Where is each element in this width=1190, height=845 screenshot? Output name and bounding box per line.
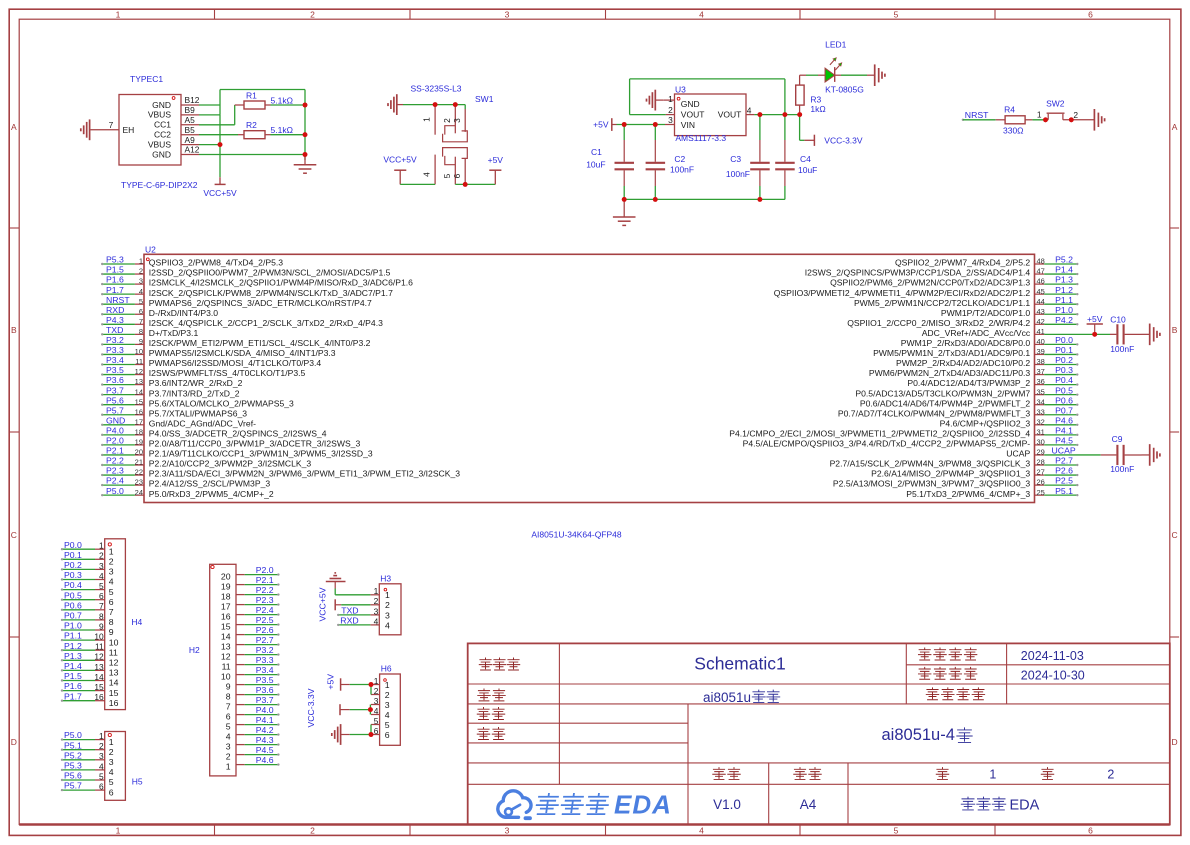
- svg-text:B: B: [11, 325, 17, 335]
- svg-text:30: 30: [1037, 438, 1045, 447]
- H4 pin 10 (P1.1): [95, 639, 105, 641]
- svg-text:GND: GND: [106, 415, 125, 425]
- U2 pin 43 (P1.0): [1035, 313, 1045, 315]
- svg-text:48: 48: [1037, 257, 1045, 266]
- svg-text:12: 12: [221, 652, 231, 662]
- svg-text:P5.0: P5.0: [106, 486, 124, 496]
- svg-text:10uF: 10uF: [586, 160, 605, 170]
- ground symbol below R1/R2: [304, 155, 306, 165]
- U2 pin 45 (P1.2): [1035, 293, 1045, 295]
- junction SW1 pin6: [463, 182, 468, 187]
- svg-text:P0.1: P0.1: [64, 550, 82, 560]
- svg-text:2024-10-30: 2024-10-30: [1021, 669, 1085, 683]
- svg-text:3: 3: [385, 610, 390, 620]
- svg-text:P4.0: P4.0: [256, 705, 274, 715]
- svg-text:H5: H5: [132, 777, 143, 787]
- net label P0.2 at U2 pin 38: [1044, 364, 1076, 366]
- title block grid lines: [906, 664, 1170, 666]
- net label P0.6 at U2 pin 34: [1044, 404, 1076, 406]
- svg-text:2: 2: [385, 600, 390, 610]
- U2 pin 30 (P4.5): [1035, 444, 1045, 446]
- junction R1 right: [303, 103, 308, 108]
- SW1 pin 3: [464, 105, 466, 109]
- IC U2 AI8051U-34K64-QFP48 body: [144, 254, 1035, 502]
- ground symbol at H6 pins 5-6: [340, 724, 342, 745]
- net label RXD at H3 pin4: [339, 624, 370, 626]
- net label P2.4 at H2 pin 16: [245, 614, 278, 616]
- svg-text:P2.1/A9/T11CLKO/CCP1_3/PWM1N_3: P2.1/A9/T11CLKO/CCP1_3/PWM1N_3/PWM5_3/I2…: [149, 449, 373, 459]
- svg-text:4: 4: [747, 106, 752, 116]
- U2 pin 21 (P2.2): [135, 464, 144, 466]
- svg-text:1: 1: [139, 257, 143, 266]
- svg-text:6: 6: [99, 782, 104, 792]
- H4 pin 2 (P0.1): [95, 558, 105, 560]
- svg-text:P1.1: P1.1: [64, 631, 82, 641]
- svg-text:P2.5: P2.5: [1055, 476, 1073, 486]
- net label P1.1 at H4 pin 10: [63, 639, 95, 641]
- svg-text:3: 3: [505, 9, 510, 19]
- U2 pin 34 (P0.6): [1035, 404, 1045, 406]
- U2 pin 41 (Vcc): [1035, 333, 1045, 335]
- svg-text:V1.0: V1.0: [713, 797, 741, 812]
- zone tick marks top: [214, 9, 216, 19]
- power flag VCC+5V below TYPEC1: [219, 177, 221, 184]
- svg-text:R2: R2: [246, 120, 257, 130]
- H4 pin 7 (P0.6): [95, 609, 105, 611]
- svg-text:1: 1: [385, 680, 390, 690]
- svg-text:P4.5: P4.5: [1055, 436, 1073, 446]
- svg-text:10: 10: [135, 347, 143, 356]
- net label TXD at H3 pin3: [339, 614, 370, 616]
- net label P5.6 at H5 pin 5: [63, 779, 95, 781]
- wire SW2 to ground: [1063, 119, 1095, 121]
- H3 pin 2: [370, 604, 379, 606]
- svg-text:P3.6/INT2/WR_2/RxD_2: P3.6/INT2/WR_2/RxD_2: [149, 378, 243, 388]
- svg-text:A: A: [11, 122, 17, 132]
- U2 pin 25 (P5.1): [1035, 494, 1045, 496]
- svg-text:29: 29: [1037, 448, 1045, 457]
- svg-text:P5.6: P5.6: [106, 395, 124, 405]
- svg-text:4: 4: [109, 577, 114, 587]
- svg-text:37: 37: [1037, 367, 1045, 376]
- wire net UCAP at U2 pin29: [1044, 454, 1101, 456]
- svg-text:C: C: [11, 530, 17, 540]
- svg-text:9: 9: [109, 627, 114, 637]
- H2 pin 13 (P2.7): [236, 644, 245, 646]
- net label P2.1 at H2 pin 19: [245, 584, 278, 586]
- power flag VCC-3.3V: [804, 139, 814, 141]
- svg-text:P2.0: P2.0: [256, 565, 274, 575]
- svg-text:17: 17: [135, 417, 143, 426]
- net label P4.5 at U2 pin 30: [1044, 444, 1076, 446]
- svg-text:P4.6/CMP+/QSPIIO2_3: P4.6/CMP+/QSPIIO2_3: [940, 418, 1031, 428]
- U2 pin 12 (P3.5): [135, 374, 144, 376]
- wire VCC+5V to SW1 pin4: [400, 183, 435, 185]
- junction H6 pin1: [369, 682, 374, 687]
- svg-text:3: 3: [226, 742, 231, 752]
- svg-text:P0.7/AD7/T4CLKO/PWM4N_2/PWM8/P: P0.7/AD7/T4CLKO/PWM4N_2/PWM8/PWMFLT_3: [838, 408, 1031, 418]
- svg-text:P4.1: P4.1: [256, 715, 274, 725]
- H4 pin 8 (P0.7): [95, 619, 105, 621]
- svg-text:VOUT: VOUT: [718, 110, 742, 120]
- title label 物料编码: [926, 688, 938, 700]
- svg-text:P3.3: P3.3: [256, 655, 274, 665]
- svg-text:EDA: EDA: [1010, 798, 1040, 814]
- svg-text:P3.2: P3.2: [256, 645, 274, 655]
- net label P0.5 at H4 pin 6: [63, 599, 95, 601]
- svg-text:AI8051U-34K64-QFP48: AI8051U-34K64-QFP48: [531, 529, 622, 539]
- net label P1.4 at U2 pin 47: [1044, 273, 1076, 275]
- svg-text:I2SSD_2/QSPIIO0/PWM7_2/PWM3N/S: I2SSD_2/QSPIIO0/PWM7_2/PWM3N/SCL_2/MOSI/…: [149, 268, 391, 278]
- svg-text:2: 2: [226, 752, 231, 762]
- H6 pin 1: [371, 684, 380, 686]
- junction C1 top: [622, 122, 627, 127]
- U2 pin 36 (P0.4): [1035, 384, 1045, 386]
- svg-text:P3.7: P3.7: [106, 385, 124, 395]
- title label 页: [936, 768, 948, 780]
- net label P2.3 at H2 pin 17: [245, 604, 278, 606]
- svg-text:D-/RxD/INT4/P3.0: D-/RxD/INT4/P3.0: [149, 308, 218, 318]
- net label P2.2 at H2 pin 18: [245, 594, 278, 596]
- svg-text:6: 6: [385, 730, 390, 740]
- svg-text:P0.4: P0.4: [64, 580, 82, 590]
- svg-text:3: 3: [99, 561, 104, 571]
- net label P0.0 at U2 pin 40: [1044, 343, 1076, 345]
- svg-text:14: 14: [94, 672, 104, 682]
- logo cloud icon 嘉立创EDA: [498, 791, 531, 818]
- svg-text:9: 9: [99, 621, 104, 631]
- svg-text:P3.5: P3.5: [106, 365, 124, 375]
- svg-text:6: 6: [139, 307, 143, 316]
- title value 嘉立创EDA: [961, 797, 974, 810]
- svg-text:14: 14: [221, 632, 231, 642]
- svg-text:VIN: VIN: [681, 120, 695, 130]
- net label P3.6 at H2 pin 8: [245, 694, 278, 696]
- svg-text:3: 3: [374, 696, 379, 706]
- svg-text:I2SCK_4/QSPICLK_2/CCP1_2/SCLK_: I2SCK_4/QSPICLK_2/CCP1_2/SCLK_3/TxD2_2/R…: [149, 318, 383, 328]
- svg-text:C1: C1: [591, 147, 602, 157]
- power flag VCC-3.3V at H6 pins 3-4: [339, 704, 341, 715]
- svg-text:P0.6/ADC14/AD6/T4/PWM4P_2/PWMF: P0.6/ADC14/AD6/T4/PWM4P_2/PWMFLT_2: [860, 398, 1031, 408]
- svg-text:330Ω: 330Ω: [1003, 125, 1024, 135]
- svg-text:PWM1P/T2/ADC0/P1.0: PWM1P/T2/ADC0/P1.0: [941, 308, 1031, 318]
- svg-text:P1.4: P1.4: [64, 661, 82, 671]
- net label P3.2 at H2 pin 12: [245, 654, 278, 656]
- svg-text:GND: GND: [152, 149, 171, 159]
- net label P2.0 at U2 pin 19: [103, 444, 135, 446]
- svg-text:3: 3: [139, 277, 143, 286]
- svg-text:VBUS: VBUS: [148, 139, 171, 149]
- svg-text:VOUT: VOUT: [681, 110, 705, 120]
- H2 pin 9 (P3.5): [236, 684, 245, 686]
- net label P4.0 at H2 pin 6: [245, 714, 278, 716]
- net label P2.5 at U2 pin 26: [1044, 484, 1076, 486]
- regulator U3 body: [675, 94, 747, 136]
- svg-text:R3: R3: [810, 95, 821, 105]
- svg-text:C3: C3: [730, 154, 741, 164]
- svg-text:1: 1: [421, 117, 431, 122]
- H2 pin 17 (P2.3): [236, 604, 245, 606]
- junction H6 pin6: [369, 732, 374, 737]
- H4 pin 9 (P1.0): [95, 629, 105, 631]
- svg-text:P2.5/A13/MOSI_2/PWM3N_3/PWM7_3: P2.5/A13/MOSI_2/PWM3N_3/PWM7_3/QSPIIO0_3: [833, 479, 1030, 489]
- H5 pin 1 (P5.0): [95, 739, 105, 741]
- svg-text:2: 2: [99, 551, 104, 561]
- svg-text:100nF: 100nF: [670, 164, 694, 174]
- svg-text:P3.7: P3.7: [256, 695, 274, 705]
- ground symbol left of SW1: [396, 94, 398, 115]
- svg-text:5: 5: [385, 720, 390, 730]
- net label P1.6 at U2 pin 3: [103, 283, 135, 285]
- svg-text:EDA: EDA: [614, 790, 672, 820]
- svg-text:C4: C4: [800, 154, 811, 164]
- svg-text:2: 2: [1073, 110, 1078, 120]
- svg-text:B: B: [1172, 325, 1178, 335]
- svg-text:KT-0805G: KT-0805G: [825, 84, 864, 94]
- ground symbol below C1: [623, 199, 625, 217]
- svg-text:2: 2: [310, 825, 315, 835]
- ground symbol at TYPEC1 EH: [89, 119, 91, 140]
- svg-text:1: 1: [374, 586, 379, 596]
- svg-text:UCAP: UCAP: [1006, 449, 1030, 459]
- net label P4.5 at H2 pin 2: [245, 754, 278, 756]
- svg-text:8: 8: [109, 617, 114, 627]
- svg-text:P5.6/XTALO/MCLKO_2/PWMAPS5_3: P5.6/XTALO/MCLKO_2/PWMAPS5_3: [149, 398, 294, 408]
- svg-text:8: 8: [99, 611, 104, 621]
- svg-text:15: 15: [221, 622, 231, 632]
- junction SW2 pin1: [1043, 117, 1048, 122]
- svg-text:23: 23: [135, 478, 143, 487]
- svg-text:PWM5/PWM1N_2/TxD3/AD1/ADC9/P0.: PWM5/PWM1N_2/TxD3/AD1/ADC9/P0.1: [873, 348, 1030, 358]
- svg-text:3: 3: [505, 825, 510, 835]
- net label P1.4 at H4 pin 13: [63, 669, 95, 671]
- net label P3.7 at H2 pin 7: [245, 704, 278, 706]
- U2 pin 11 (P3.4): [135, 364, 144, 366]
- svg-text:3: 3: [385, 700, 390, 710]
- svg-text:6: 6: [109, 787, 114, 797]
- svg-text:12: 12: [135, 367, 143, 376]
- svg-text:5: 5: [99, 771, 104, 781]
- svg-text:12: 12: [94, 652, 104, 662]
- H4 pin 11 (P1.2): [95, 649, 105, 651]
- TYPEC1 pin A5 (CC1): [181, 124, 199, 126]
- title label 共: [1041, 768, 1053, 780]
- svg-text:P0.4: P0.4: [1055, 375, 1073, 385]
- svg-text:1: 1: [374, 676, 379, 686]
- net label P4.0 at U2 pin 18: [103, 434, 135, 436]
- resistor R3: [800, 74, 806, 76]
- svg-text:B9: B9: [185, 105, 196, 115]
- svg-text:P2.7: P2.7: [1055, 456, 1073, 466]
- net label P5.6 at U2 pin 15: [103, 404, 135, 406]
- svg-text:2: 2: [310, 9, 315, 19]
- zone tick marks left: [9, 227, 19, 229]
- svg-text:P4.0: P4.0: [106, 425, 124, 435]
- wire LED1 cathode to ground: [835, 74, 841, 76]
- U2 pin 42 (P4.2): [1035, 323, 1045, 325]
- svg-text:VCC+5V: VCC+5V: [383, 154, 417, 164]
- svg-text:P1.7: P1.7: [64, 691, 82, 701]
- TYPEC1 pin A12 (GND): [181, 154, 199, 156]
- svg-text:R1: R1: [246, 90, 257, 100]
- net label P0.7 at U2 pin 33: [1044, 414, 1076, 416]
- svg-text:P2.6/A14/MISO_2/PWM4P_3/QSPIIO: P2.6/A14/MISO_2/PWM4P_3/QSPIIO1_3: [871, 469, 1030, 479]
- net label P0.3 at H4 pin 4: [63, 579, 95, 581]
- net label P2.4 at U2 pin 23: [103, 484, 135, 486]
- net label P1.1 at U2 pin 44: [1044, 303, 1076, 305]
- svg-text:16: 16: [221, 612, 231, 622]
- net label P0.6 at H4 pin 7: [63, 609, 95, 611]
- U2 pin 35 (P0.5): [1035, 394, 1045, 396]
- svg-text:P2.3: P2.3: [256, 595, 274, 605]
- wire net VCC-3.3V: R3 down to flag: [799, 115, 801, 141]
- svg-text:16: 16: [109, 698, 119, 708]
- svg-text:4: 4: [699, 9, 704, 19]
- U2 pin 32 (P4.6): [1035, 424, 1045, 426]
- svg-text:5.1kΩ: 5.1kΩ: [271, 95, 293, 105]
- junction C4 top / loop: [783, 112, 788, 117]
- U2 pin 22 (P2.3): [135, 474, 144, 476]
- connector H4 body: [105, 539, 126, 710]
- H3 pin 3: [370, 614, 379, 616]
- net label P4.3 at U2 pin 7: [103, 323, 135, 325]
- svg-text:I2SCK/PWM_ETI2/PWM_ETI1/SCL_4/: I2SCK/PWM_ETI2/PWM_ETI1/SCL_4/SCLK_4/INT…: [149, 338, 371, 348]
- net label P0.1 at H4 pin 2: [63, 558, 95, 560]
- H3 pin-1 marker: [384, 588, 387, 591]
- H2 pin 10 (P3.4): [236, 674, 245, 676]
- svg-text:2: 2: [109, 557, 114, 567]
- wire net GND: A12 row: [199, 154, 305, 156]
- net label P2.7 at U2 pin 28: [1044, 464, 1076, 466]
- svg-text:CC1: CC1: [154, 120, 171, 130]
- net label P1.6 at H4 pin 15: [63, 690, 95, 692]
- svg-text:10uF: 10uF: [798, 165, 817, 175]
- SW1 pin 1: [434, 105, 436, 135]
- svg-text:33: 33: [1037, 407, 1045, 416]
- svg-text:7: 7: [226, 702, 231, 712]
- svg-text:2: 2: [139, 267, 143, 276]
- svg-text:TYPEC1: TYPEC1: [130, 74, 163, 84]
- U2 pin 48 (P5.2): [1035, 263, 1045, 265]
- H2 pin-1 marker: [211, 565, 214, 568]
- svg-text:P2.7: P2.7: [256, 635, 274, 645]
- LED1 diode symbol: [825, 68, 835, 82]
- H3 pin 4: [370, 624, 379, 626]
- svg-text:U3: U3: [675, 85, 686, 95]
- title label 审阅: [477, 728, 489, 740]
- svg-text:4: 4: [374, 706, 379, 716]
- svg-text:PWM6/PWM2N_2/TxD4/AD3/ADC11/P0: PWM6/PWM2N_2/TxD4/AD3/ADC11/P0.3: [869, 368, 1030, 378]
- svg-text:A5: A5: [185, 115, 196, 125]
- wire SW1 pin5/pin6 to +5V: [455, 183, 495, 185]
- svg-text:2: 2: [442, 118, 452, 123]
- svg-text:P5.0: P5.0: [64, 730, 82, 740]
- svg-text:P1.6: P1.6: [106, 275, 124, 285]
- U3 pin 4 VOUT right: [746, 114, 754, 116]
- svg-text:PWM2P_2/RxD4/AD2/ADC10/P0.2: PWM2P_2/RxD4/AD2/ADC10/P0.2: [896, 358, 1030, 368]
- svg-text:22: 22: [135, 468, 143, 477]
- svg-text:P2.3/A11/SDA/ECI_3/PWM2N_3/PWM: P2.3/A11/SDA/ECI_3/PWM2N_3/PWM6_3/PWM_ET…: [149, 469, 460, 479]
- svg-text:3: 3: [109, 757, 114, 767]
- net label P2.6 at U2 pin 27: [1044, 474, 1076, 476]
- U2 pin 18 (P4.0): [135, 434, 144, 436]
- svg-text:P1.6: P1.6: [64, 681, 82, 691]
- TYPEC1 pin B12 (GND): [181, 104, 199, 106]
- net label P5.1 at U2 pin 25: [1044, 494, 1076, 496]
- svg-text:27: 27: [1037, 468, 1045, 477]
- U2 pin-1 marker: [146, 258, 149, 261]
- wire net +5V at H6: [350, 684, 371, 686]
- svg-text:GND: GND: [152, 100, 171, 110]
- junction C2 top: [653, 122, 658, 127]
- svg-text:R4: R4: [1004, 104, 1015, 114]
- svg-text:43: 43: [1037, 307, 1045, 316]
- U2 pin 3 (P1.6): [135, 283, 144, 285]
- svg-text:P0.7: P0.7: [1055, 405, 1073, 415]
- title label 图页: [478, 689, 490, 701]
- svg-text:2: 2: [374, 686, 379, 696]
- title label 更新日期: [918, 648, 930, 660]
- ground symbol right of C10: [1149, 324, 1151, 346]
- svg-text:A12: A12: [185, 145, 200, 155]
- svg-text:+5V: +5V: [593, 119, 609, 129]
- svg-text:4: 4: [139, 287, 143, 296]
- U3 pin 1 GND: [664, 99, 675, 101]
- H2 pin 6 (P4.0): [236, 714, 245, 716]
- net label TXD at U2 pin 8: [103, 333, 135, 335]
- svg-text:C: C: [1172, 530, 1178, 540]
- SW1 pin 6: [464, 158, 466, 184]
- title block outer frame: [468, 643, 1170, 824]
- svg-text:4: 4: [385, 710, 390, 720]
- U2 pin 20 (P2.1): [135, 454, 144, 456]
- svg-text:47: 47: [1037, 267, 1045, 276]
- junction C1 bottom: [622, 197, 627, 202]
- junction H6 pins3-4: [368, 707, 373, 712]
- svg-text:P2.2/A10/CCP2_3/PWM2P_3/I2SMCL: P2.2/A10/CCP2_3/PWM2P_3/I2SMCLK_3: [149, 459, 312, 469]
- zone tick marks right: [1170, 227, 1179, 229]
- ground symbol right of SW2: [1093, 109, 1095, 131]
- svg-text:P1.7: P1.7: [106, 285, 124, 295]
- svg-text:RXD: RXD: [340, 616, 358, 626]
- net label P1.5 at U2 pin 2: [103, 273, 135, 275]
- svg-text:4: 4: [385, 620, 390, 630]
- svg-text:PWMAPS5/I2SMCLK/SDA_4/MISO_4/I: PWMAPS5/I2SMCLK/SDA_4/MISO_4/INT1/P3.3: [149, 348, 336, 358]
- svg-text:B12: B12: [185, 95, 200, 105]
- svg-text:P5.2: P5.2: [1055, 255, 1073, 265]
- svg-text:P2.7/A15/SCLK_2/PWM4N_3/PWM8_3: P2.7/A15/SCLK_2/PWM4N_3/PWM8_3/QSPICLK_3: [830, 459, 1031, 469]
- U2 pin 29 (UCAP): [1035, 454, 1045, 456]
- junction SW1 pin1: [433, 102, 438, 107]
- svg-text:C9: C9: [1112, 434, 1123, 444]
- svg-text:6: 6: [1088, 825, 1093, 835]
- connector H2 body: [210, 564, 236, 776]
- svg-text:4: 4: [226, 732, 231, 742]
- svg-text:RXD: RXD: [106, 305, 124, 315]
- net label NRST at U2 pin 5: [103, 303, 135, 305]
- svg-text:QSPIIO2/PWM6_2/PWM2N/CCP0/TxD2: QSPIIO2/PWM6_2/PWM2N/CCP0/TxD2/ADC3/P1.3: [830, 278, 1030, 288]
- svg-text:P5.2: P5.2: [64, 750, 82, 760]
- svg-text:25: 25: [1037, 488, 1045, 497]
- svg-text:P1.3: P1.3: [1055, 275, 1073, 285]
- net label P4.2 at U2 pin 42: [1044, 323, 1076, 325]
- svg-text:7: 7: [139, 317, 143, 326]
- H2 pin 18 (P2.2): [236, 594, 245, 596]
- svg-text:P1.5: P1.5: [64, 671, 82, 681]
- svg-text:2: 2: [99, 741, 104, 751]
- wire net NRST: [962, 119, 964, 121]
- net label P1.2 at H4 pin 11: [63, 649, 95, 651]
